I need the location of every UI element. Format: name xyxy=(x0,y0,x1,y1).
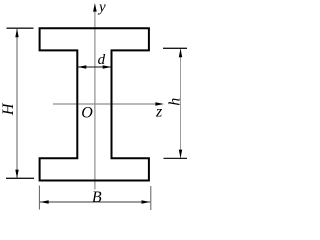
d dimension double arrow xyxy=(78,66,111,68)
H top tick xyxy=(7,27,34,29)
y-axis arrowhead xyxy=(93,3,97,12)
svg-text:y: y xyxy=(97,0,106,16)
h top arrowhead xyxy=(179,49,182,58)
B right extension line xyxy=(150,186,152,210)
d right arrowhead xyxy=(103,65,112,68)
B dimension line xyxy=(40,201,150,203)
B right arrowhead xyxy=(142,200,151,203)
y-axis xyxy=(94,10,96,190)
d left arrowhead xyxy=(78,65,87,68)
H top arrowhead xyxy=(15,29,18,38)
svg-text:d: d xyxy=(98,52,106,68)
H dimension line xyxy=(16,29,18,179)
H bottom tick xyxy=(6,177,34,179)
B left extension line xyxy=(38,186,40,210)
svg-text:H: H xyxy=(0,102,17,116)
H bottom arrowhead xyxy=(15,170,18,179)
B left arrowhead xyxy=(40,200,49,203)
h bottom tick xyxy=(164,157,188,159)
z-axis xyxy=(53,103,157,105)
z-axis arrowhead xyxy=(155,102,164,106)
h bottom arrowhead xyxy=(179,150,182,159)
svg-text:z: z xyxy=(155,103,163,120)
svg-text:h: h xyxy=(166,98,183,106)
svg-text:B: B xyxy=(92,189,102,206)
I-beam outline xyxy=(40,28,149,180)
svg-text:O: O xyxy=(81,105,93,122)
h top tick xyxy=(163,47,187,49)
h dimension line xyxy=(180,49,182,159)
